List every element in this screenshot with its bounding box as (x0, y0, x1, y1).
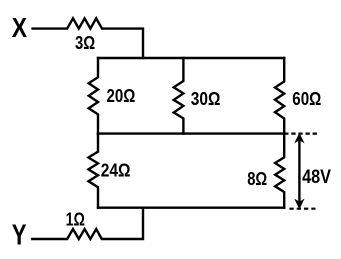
resistor R5 (24 ohm) branch (88, 134, 98, 208)
svg-text:8Ω: 8Ω (247, 169, 267, 189)
dashed reference line top (284, 133, 317, 135)
svg-text:48V: 48V (302, 166, 331, 188)
svg-text:X: X (12, 12, 28, 43)
wire bottom bus (98, 206, 284, 208)
wire Y lead with resistor R7 (1 ohm) zigzag and rise to bottom bus (32, 208, 143, 239)
resistor R4 (60 ohm) branch (275, 58, 284, 134)
wire middle bus (98, 132, 284, 134)
voltage arrow 48V double-headed (295, 134, 303, 209)
resistor R2 (20 ohm) branch (89, 58, 98, 134)
svg-text:20Ω: 20Ω (107, 86, 136, 106)
resistor R3 (30 ohm) branch (174, 58, 184, 134)
resistor R6 (8 ohm) branch (275, 134, 284, 208)
wire top bus (98, 57, 284, 59)
svg-text:60Ω: 60Ω (292, 89, 321, 109)
svg-text:24Ω: 24Ω (101, 160, 131, 181)
svg-text:30Ω: 30Ω (191, 89, 221, 109)
svg-text:Y: Y (12, 220, 27, 252)
dashed reference line bottom (289, 208, 315, 210)
svg-text:3Ω: 3Ω (75, 33, 95, 53)
wire X lead with resistor R1 (3 ohm) zigzag and drop to top bus (33, 18, 143, 58)
svg-text:1Ω: 1Ω (66, 210, 85, 230)
